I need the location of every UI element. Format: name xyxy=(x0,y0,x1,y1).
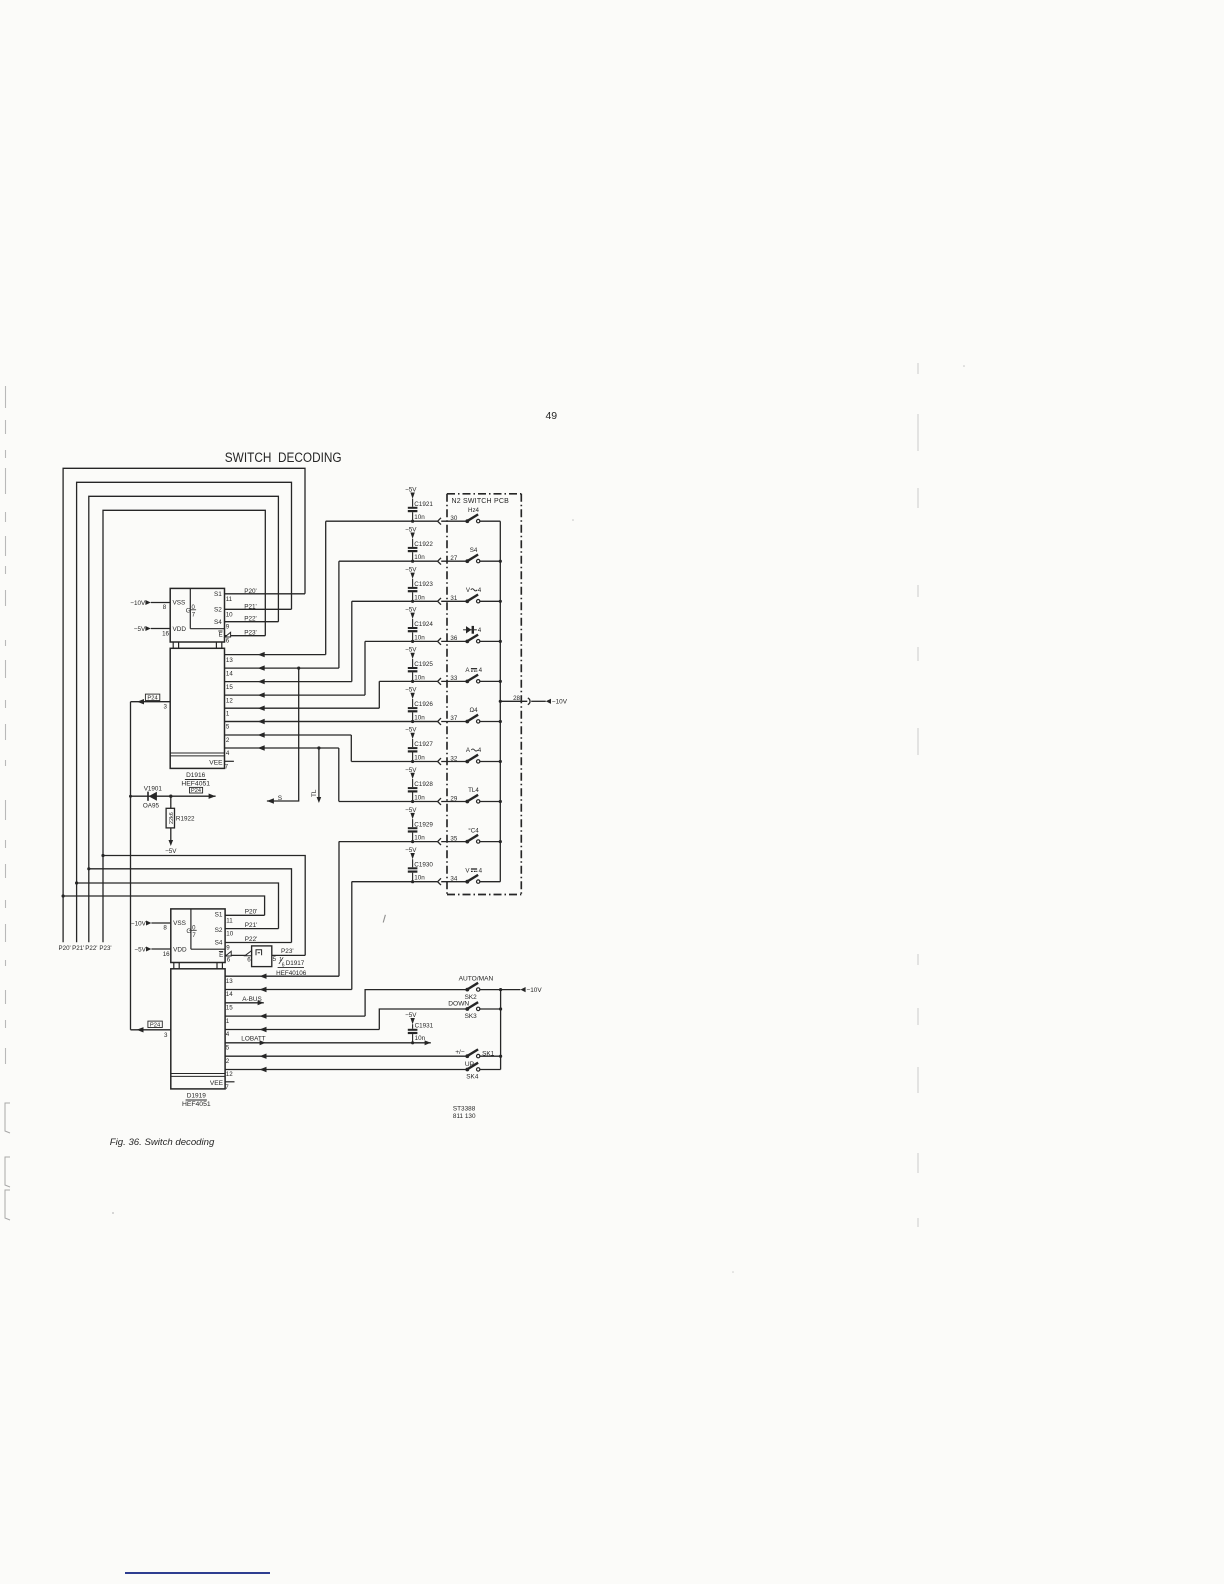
svg-text:V1901: V1901 xyxy=(144,785,163,792)
svg-text:−5V: −5V xyxy=(405,727,417,734)
svg-text:32: 32 xyxy=(450,755,457,762)
svg-text:LOBATT: LOBATT xyxy=(241,1036,265,1043)
svg-text:P20': P20' xyxy=(245,909,258,916)
svg-text:S1: S1 xyxy=(215,911,223,918)
svg-text:C1926: C1926 xyxy=(414,701,433,708)
svg-text:−5V: −5V xyxy=(405,807,417,814)
svg-text:S: S xyxy=(278,795,283,802)
svg-text:11: 11 xyxy=(226,917,233,924)
svg-text:C1928: C1928 xyxy=(414,781,433,788)
svg-text:15: 15 xyxy=(226,1005,233,1012)
svg-text:S1: S1 xyxy=(214,591,222,598)
svg-text:S2: S2 xyxy=(215,927,223,934)
svg-text:28: 28 xyxy=(513,695,520,702)
svg-text:13: 13 xyxy=(226,978,233,985)
svg-text:Fig. 36. Switch decoding: Fig. 36. Switch decoding xyxy=(110,1137,215,1148)
svg-text:11: 11 xyxy=(226,596,233,603)
svg-text:P23': P23' xyxy=(281,948,294,955)
svg-text:10n: 10n xyxy=(414,715,425,722)
svg-text:13: 13 xyxy=(226,657,233,664)
svg-text:−5V: −5V xyxy=(405,527,417,534)
svg-text:6: 6 xyxy=(247,956,251,963)
svg-text:34: 34 xyxy=(450,876,457,883)
svg-text:E: E xyxy=(219,952,223,959)
svg-text:+/−: +/− xyxy=(455,1049,465,1056)
svg-text:7: 7 xyxy=(192,613,196,619)
svg-text:−5V: −5V xyxy=(134,946,146,953)
svg-text:Ω4: Ω4 xyxy=(469,707,478,714)
svg-text:27: 27 xyxy=(450,555,457,562)
svg-text:V: V xyxy=(466,587,471,594)
svg-text:14: 14 xyxy=(226,991,233,998)
svg-text:30: 30 xyxy=(450,515,457,522)
svg-text:10n: 10n xyxy=(414,634,425,641)
svg-text:6: 6 xyxy=(227,956,231,963)
svg-text:3: 3 xyxy=(164,1032,168,1039)
svg-text:P20': P20' xyxy=(59,945,71,952)
svg-text:C1929: C1929 xyxy=(414,821,433,828)
svg-text:29: 29 xyxy=(450,795,457,802)
svg-text:VDD: VDD xyxy=(173,626,187,633)
svg-text:5: 5 xyxy=(273,956,277,963)
svg-text:−5V: −5V xyxy=(405,607,417,614)
svg-text:49: 49 xyxy=(545,410,557,422)
svg-text:C1924: C1924 xyxy=(414,621,433,628)
svg-text:C1931: C1931 xyxy=(415,1023,434,1030)
svg-text:C1927: C1927 xyxy=(414,741,433,748)
svg-text:C1922: C1922 xyxy=(414,541,433,548)
svg-text:37: 37 xyxy=(450,715,457,722)
svg-text:D1919: D1919 xyxy=(187,1093,207,1100)
svg-text:P22': P22' xyxy=(244,616,257,623)
svg-text:8: 8 xyxy=(163,604,167,611)
svg-text:10n: 10n xyxy=(414,514,425,521)
svg-text:6: 6 xyxy=(226,638,230,645)
svg-text:−5V: −5V xyxy=(165,848,177,855)
svg-text:4: 4 xyxy=(478,587,482,594)
svg-text:5: 5 xyxy=(226,1045,230,1052)
svg-text:−5V: −5V xyxy=(134,626,146,633)
svg-text:12: 12 xyxy=(226,697,233,704)
svg-text:C1923: C1923 xyxy=(414,581,433,588)
svg-text:10: 10 xyxy=(226,931,233,938)
svg-text:SK1: SK1 xyxy=(482,1050,495,1057)
svg-text:TL4: TL4 xyxy=(468,787,479,794)
svg-text:−5V: −5V xyxy=(405,486,417,493)
svg-text:10: 10 xyxy=(226,611,233,618)
svg-text:35: 35 xyxy=(450,835,457,842)
svg-text:P24: P24 xyxy=(191,788,201,794)
svg-text:4: 4 xyxy=(226,1031,230,1038)
svg-text:−5V: −5V xyxy=(405,567,417,574)
svg-text:811 130: 811 130 xyxy=(453,1113,476,1120)
svg-text:S4: S4 xyxy=(215,940,223,947)
svg-text:−5V: −5V xyxy=(405,847,417,854)
svg-text:S2: S2 xyxy=(214,606,222,613)
svg-text:DOWN: DOWN xyxy=(448,1000,469,1007)
svg-text:5: 5 xyxy=(226,724,230,731)
svg-text:4: 4 xyxy=(226,750,230,757)
svg-text:TL: TL xyxy=(311,789,318,797)
svg-text:−5V: −5V xyxy=(405,767,417,774)
svg-text:2: 2 xyxy=(226,1058,230,1065)
svg-text:HEF4051: HEF4051 xyxy=(181,781,210,788)
svg-text:SWITCH DECODING: SWITCH DECODING xyxy=(225,450,342,465)
svg-text:OA95: OA95 xyxy=(143,803,160,810)
svg-text:3: 3 xyxy=(163,704,167,711)
svg-text:36: 36 xyxy=(450,635,457,642)
svg-text:10n: 10n xyxy=(414,554,425,561)
svg-text:P23': P23' xyxy=(244,630,257,637)
svg-text:15: 15 xyxy=(226,684,233,691)
svg-text:VEE: VEE xyxy=(210,1080,224,1087)
svg-text:9: 9 xyxy=(226,624,230,631)
svg-text:10n: 10n xyxy=(414,674,425,681)
svg-text:E: E xyxy=(219,632,223,639)
svg-text:P21': P21' xyxy=(72,945,84,952)
svg-text:33: 33 xyxy=(450,675,457,682)
svg-text:−5V: −5V xyxy=(405,687,417,694)
svg-text:AUTO/MAN: AUTO/MAN xyxy=(459,976,494,983)
svg-text:VDD: VDD xyxy=(173,946,187,953)
svg-text:1: 1 xyxy=(226,1018,230,1025)
svg-text:S4: S4 xyxy=(470,547,478,554)
svg-text:D1917: D1917 xyxy=(286,960,305,967)
svg-text:7: 7 xyxy=(225,764,229,771)
svg-text:A: A xyxy=(465,667,470,674)
svg-text:°C4: °C4 xyxy=(468,827,479,834)
svg-text:SK4: SK4 xyxy=(466,1073,479,1080)
svg-text:9: 9 xyxy=(226,945,230,952)
svg-text:P24: P24 xyxy=(147,696,158,702)
svg-text:G: G xyxy=(186,608,191,615)
svg-text:Hz4: Hz4 xyxy=(468,507,480,514)
svg-text:4: 4 xyxy=(478,627,482,634)
svg-text:−10V: −10V xyxy=(131,920,147,927)
svg-text:2: 2 xyxy=(226,737,230,744)
svg-text:4: 4 xyxy=(479,667,483,674)
svg-text:VSS: VSS xyxy=(173,599,186,606)
svg-text:D1916: D1916 xyxy=(186,772,206,779)
svg-text:14: 14 xyxy=(226,670,233,677)
svg-text:P22': P22' xyxy=(85,945,97,952)
svg-text:P21': P21' xyxy=(245,922,258,929)
svg-text:−10V: −10V xyxy=(130,600,146,607)
svg-text:HEF4051: HEF4051 xyxy=(182,1101,211,1108)
svg-text:4: 4 xyxy=(478,747,482,754)
svg-text:16: 16 xyxy=(163,951,170,958)
svg-text:P24: P24 xyxy=(150,1023,161,1029)
svg-text:V: V xyxy=(465,867,470,874)
svg-text:R1922: R1922 xyxy=(176,816,195,823)
svg-text:10n: 10n xyxy=(414,755,425,762)
svg-text:A: A xyxy=(466,747,471,754)
svg-text:VSS: VSS xyxy=(173,920,186,927)
svg-text:7: 7 xyxy=(225,1084,229,1091)
svg-text:12: 12 xyxy=(226,1071,233,1078)
svg-text:SK3: SK3 xyxy=(465,1013,478,1020)
svg-text:10n: 10n xyxy=(414,795,425,802)
svg-text:P22': P22' xyxy=(245,936,258,943)
svg-text:10n: 10n xyxy=(414,835,425,842)
svg-text:G: G xyxy=(186,928,191,935)
svg-text:−5V: −5V xyxy=(405,1012,417,1019)
svg-text:31: 31 xyxy=(450,595,457,602)
svg-text:4: 4 xyxy=(479,867,483,874)
svg-text:−5V: −5V xyxy=(405,647,417,654)
svg-text:P23': P23' xyxy=(99,945,111,952)
svg-text:N2 SWITCH PCB: N2 SWITCH PCB xyxy=(452,498,510,505)
svg-text:10n: 10n xyxy=(415,1035,426,1042)
svg-text:16: 16 xyxy=(162,631,169,638)
svg-text:10n: 10n xyxy=(414,875,425,882)
svg-text:C1930: C1930 xyxy=(414,861,433,868)
svg-text:7: 7 xyxy=(192,933,196,939)
svg-text:22k6: 22k6 xyxy=(169,812,175,824)
svg-text:ST3388: ST3388 xyxy=(453,1105,476,1112)
svg-text:P20': P20' xyxy=(244,588,257,595)
svg-text:10n: 10n xyxy=(414,594,425,601)
svg-text:VEE: VEE xyxy=(209,760,223,767)
svg-text:C1925: C1925 xyxy=(414,661,433,668)
svg-text:P21': P21' xyxy=(244,603,257,610)
svg-text:−10V: −10V xyxy=(552,699,568,706)
svg-text:−10V: −10V xyxy=(527,987,543,994)
svg-text:8: 8 xyxy=(163,924,167,931)
svg-text:A-BUS: A-BUS xyxy=(242,996,262,1003)
svg-text:S4: S4 xyxy=(214,619,222,626)
svg-text:1: 1 xyxy=(226,710,230,717)
svg-text:C1921: C1921 xyxy=(414,501,433,508)
